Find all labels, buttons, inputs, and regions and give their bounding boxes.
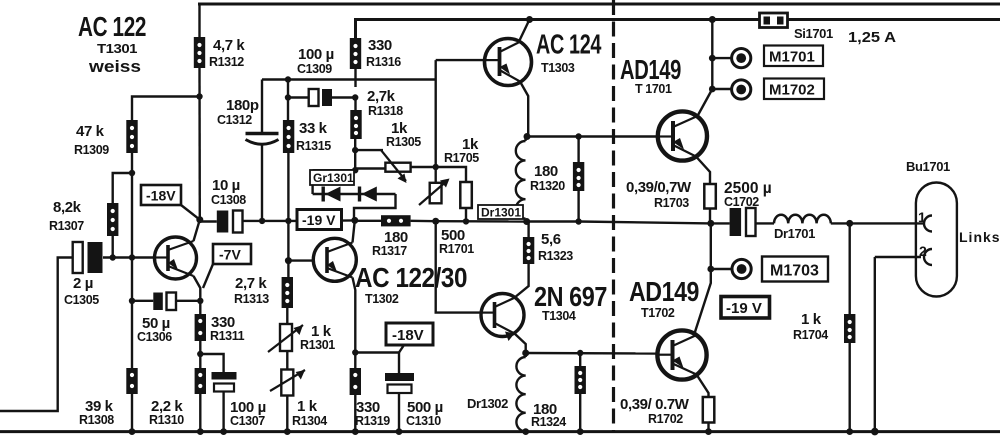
wire R1323 to T1304 collector	[514, 264, 529, 298]
svg-text:33 k: 33 k	[299, 120, 328, 137]
wire M1703 column	[710, 223, 712, 269]
transistor T1303	[485, 39, 532, 86]
svg-text:-18V: -18V	[392, 327, 424, 344]
svg-text:R1304: R1304	[292, 414, 327, 428]
svg-text:-7V: -7V	[219, 247, 241, 263]
node M1702 junction	[709, 86, 716, 93]
svg-text:C1305: C1305	[64, 293, 99, 307]
wire R1702 to ground	[707, 423, 709, 432]
node Dr1301 bottom junction	[523, 218, 530, 225]
svg-text:R1315: R1315	[296, 139, 331, 153]
svg-text:R1310: R1310	[149, 413, 184, 427]
inductor Dr1301	[516, 137, 526, 222]
resistor R1315	[283, 120, 294, 153]
wire second rail left part	[356, 20, 760, 39]
svg-text:AD149: AD149	[620, 54, 681, 85]
svg-text:M1703: M1703	[770, 263, 819, 280]
wire R1318 bottom segment	[354, 139, 356, 170]
diode D1 of Gr1301	[323, 187, 340, 202]
node emitter-C1306 junction	[197, 298, 203, 304]
resistor R1311	[195, 314, 206, 341]
node T1302 collector	[351, 217, 358, 224]
node R1311-C1307 junction	[197, 351, 203, 357]
wire x288 node down to base T1302	[287, 221, 289, 261]
wire diode left riser	[311, 170, 313, 194]
label box Dr1301	[478, 205, 523, 220]
svg-text:R1305: R1305	[386, 135, 421, 149]
wire T1301 collector to node	[194, 220, 200, 241]
svg-text:R1309: R1309	[74, 143, 109, 157]
node ground dots left	[129, 428, 136, 435]
node x288 top junction	[285, 76, 291, 82]
node speaker line junction	[846, 220, 853, 227]
wire feedback line y79.5	[262, 78, 436, 80]
wire diode row	[313, 193, 396, 195]
wire emitter line to T1702 base	[526, 352, 658, 355]
inductor Dr1302	[516, 353, 525, 432]
node R1307-base junction	[110, 254, 116, 260]
svg-text:1 k: 1 k	[297, 398, 318, 415]
wire R1310 to ground	[199, 394, 201, 432]
measuring point M1703	[732, 259, 751, 278]
svg-text:R1703: R1703	[654, 196, 689, 210]
wire base corner to T1303	[436, 59, 485, 61]
node ground dots mid	[352, 428, 359, 435]
svg-text:Dr1302: Dr1302	[467, 396, 508, 411]
node supply fuse junction	[709, 16, 716, 23]
wire M1701 stub	[712, 57, 731, 59]
wire y95 branch to R1309	[132, 97, 200, 121]
node ground dots Dr1302 R1324	[522, 428, 529, 435]
svg-text:47 k: 47 k	[76, 123, 105, 140]
capacitor C1306	[153, 293, 176, 311]
wire R1301 to R1304	[286, 351, 288, 370]
wire second rail right part after fuse	[787, 18, 1000, 21]
label box M1701	[764, 46, 823, 67]
svg-text:180p: 180p	[226, 97, 259, 114]
node supply R1312 junction	[196, 93, 202, 99]
svg-text:Links: Links	[959, 229, 1000, 245]
wire node to C1702	[711, 222, 730, 224]
wire top supply rail	[198, 3, 1000, 6]
wire R1323 top stub	[527, 222, 529, 238]
transistor T1302	[313, 238, 356, 281]
wire R1316 to C1309 node	[354, 69, 356, 87]
wire C1307 branch	[200, 354, 223, 372]
potentiometer R1305	[381, 150, 411, 183]
svg-text:2,7k: 2,7k	[367, 88, 396, 105]
svg-text:180: 180	[534, 163, 558, 180]
svg-text:-18V: -18V	[146, 188, 176, 204]
svg-text:0,39/0,7W: 0,39/0,7W	[626, 179, 692, 196]
wire -19V box to T1302 collector node	[342, 219, 355, 222]
wire C1312 column	[261, 80, 263, 133]
svg-text:2 µ: 2 µ	[73, 275, 93, 292]
wire R1319 to ground	[354, 395, 356, 432]
svg-text:R1317: R1317	[372, 244, 407, 258]
node C1306 left junction	[129, 298, 135, 304]
wire T1701 collector up to M junction	[698, 89, 713, 116]
wire T1303 base column	[435, 60, 437, 183]
wire C1306 branch	[132, 300, 153, 302]
svg-text:2: 2	[919, 243, 927, 259]
svg-text:T1301: T1301	[97, 42, 138, 56]
wire R1704 to ground	[849, 343, 851, 432]
wire pin2 column down	[874, 257, 876, 432]
svg-text:Dr1701: Dr1701	[774, 226, 815, 241]
wire Bu1701 pin2 line	[875, 256, 921, 258]
svg-text:AD149: AD149	[629, 276, 699, 307]
svg-text:Dr1301: Dr1301	[481, 206, 521, 220]
resistor R1307	[107, 203, 118, 236]
svg-text:AC 122: AC 122	[78, 11, 146, 42]
wire C1309 node to R1318	[354, 98, 356, 111]
node diode top junction	[352, 167, 358, 173]
resistor R1324	[575, 366, 586, 394]
wire base line x132 down	[131, 173, 133, 368]
label box -19V first	[297, 210, 342, 230]
wire C1310 branch	[355, 353, 399, 374]
wire R1324 stubs	[579, 353, 581, 366]
wire R1312 column	[198, 4, 200, 37]
potentiometer R1301	[268, 324, 303, 352]
wire T1302 collector	[353, 220, 355, 242]
resistor R1310	[195, 368, 206, 394]
node emitter junction	[522, 350, 529, 357]
wire T1702 emitter	[697, 375, 709, 398]
node ground dot pin2	[871, 428, 879, 436]
svg-text:C1702: C1702	[724, 195, 759, 209]
node M1703 junction	[707, 266, 714, 273]
wire C1309 left stub	[288, 96, 309, 98]
resistor R1308	[126, 368, 137, 394]
wire R1704 column	[849, 223, 851, 314]
svg-text:R1323: R1323	[538, 249, 573, 263]
wire R1320 bottom stub	[577, 191, 579, 222]
node C1309 right junction	[352, 94, 358, 100]
svg-text:M1702: M1702	[769, 82, 815, 99]
wire C1308 left	[200, 220, 217, 222]
wire M1703 stub	[711, 268, 732, 270]
resistor R1320	[573, 162, 584, 191]
wire Dr1701 to Bu1701 pin1	[831, 222, 924, 224]
wire x288 down to C1309	[287, 80, 289, 121]
wire R1315 bottom to node	[287, 153, 289, 221]
wire node to R1305 left end	[355, 167, 385, 169]
svg-text:AC 124: AC 124	[536, 29, 602, 60]
potentiometer R1304	[270, 370, 305, 396]
wire R1311 to R1310	[199, 341, 201, 368]
wire C1305 to base of T1301	[103, 256, 155, 258]
svg-text:R1318: R1318	[368, 104, 403, 118]
svg-text:M1701: M1701	[769, 49, 815, 66]
svg-text:Bu1701: Bu1701	[906, 159, 950, 174]
svg-text:AC 122/30: AC 122/30	[355, 262, 467, 293]
wire R1701 node down to T1304 base	[436, 221, 482, 312]
svg-text:1,25 A: 1,25 A	[848, 29, 896, 46]
svg-text:R1307: R1307	[49, 219, 84, 233]
potentiometer R1701	[419, 179, 450, 206]
wire R1320 top stub	[577, 137, 579, 163]
wire T1702 collector column	[694, 269, 711, 335]
wire base node down to R1313	[287, 261, 289, 277]
svg-text:Si1701: Si1701	[794, 26, 833, 41]
node R1315 column junction	[285, 218, 291, 224]
resistor R1319	[350, 368, 361, 395]
svg-text:R1316: R1316	[366, 55, 401, 69]
svg-text:1: 1	[918, 209, 926, 225]
resistor R1313	[282, 277, 293, 308]
svg-text:T1304: T1304	[542, 309, 576, 323]
svg-text:C1308: C1308	[211, 193, 246, 207]
connector Bu1701	[916, 183, 957, 297]
boundary dashed line	[612, 0, 615, 431]
wire diode right riser	[354, 194, 396, 220]
svg-text:T 1701: T 1701	[635, 82, 672, 96]
svg-text:-19 V: -19 V	[302, 212, 336, 228]
node R1324 top junction	[577, 350, 583, 356]
node ground dot x287	[284, 428, 291, 435]
node emitter C1310 junction	[352, 349, 358, 355]
wire T1304 emitter down	[515, 334, 526, 354]
svg-text:R1320: R1320	[530, 179, 565, 193]
label box -19V second	[721, 297, 770, 319]
svg-text:8,2k: 8,2k	[53, 199, 82, 216]
label box -7V	[203, 244, 251, 288]
svg-text:Gr1301: Gr1301	[313, 171, 354, 185]
node emitter Dr1301 junction	[524, 133, 531, 140]
node T1301 collector junction	[196, 216, 203, 223]
capacitor C1308	[217, 211, 243, 233]
resistor R1702	[703, 397, 715, 423]
svg-text:R1319: R1319	[355, 414, 390, 428]
capacitor C1309	[309, 89, 332, 106]
diode D2 of Gr1301	[360, 187, 377, 202]
wire R1307 bottom to base line	[111, 236, 113, 258]
node base-divider junction	[129, 254, 135, 260]
svg-text:R1701: R1701	[439, 242, 474, 256]
capacitor C1305	[73, 242, 103, 273]
node R1305 junction	[433, 164, 439, 170]
transistor T1304	[481, 294, 524, 342]
wire R1308 to ground	[131, 394, 133, 432]
wire T1302 emitter down	[353, 278, 356, 369]
resistor R1309	[126, 120, 137, 153]
wire bias line to Dr1301	[436, 220, 527, 223]
wire T1301 emitter down	[194, 276, 201, 314]
wire C1702 to Dr1701	[756, 222, 775, 224]
svg-text:R1313: R1313	[234, 292, 269, 306]
capacitor C1702	[730, 208, 756, 236]
diode group Gr1301 loop top wire	[313, 169, 355, 171]
svg-text:-19 V: -19 V	[726, 300, 762, 317]
wire input from left edge	[0, 258, 73, 412]
svg-text:R1311: R1311	[210, 329, 245, 343]
resistor R1703	[704, 184, 716, 209]
svg-text:T1702: T1702	[641, 306, 675, 320]
wire collector node to R1317	[355, 220, 381, 222]
label box -18V second	[386, 323, 433, 353]
node T1302 base junction	[285, 257, 292, 264]
wire Dr1301 bottom to R1320 bottom	[527, 220, 579, 222]
wire R1703 bottom	[709, 209, 711, 224]
svg-text:10 µ: 10 µ	[212, 177, 240, 194]
svg-text:1 k: 1 k	[801, 311, 822, 328]
node C1312 bottom junction	[259, 218, 265, 224]
svg-text:T1303: T1303	[541, 61, 575, 75]
wire junction to R1307	[113, 173, 132, 203]
wire R1309 bottom to junction	[131, 153, 133, 173]
resistor R1705	[460, 182, 472, 208]
label box M1703	[762, 257, 828, 282]
svg-text:0,39/ 0.7W: 0,39/ 0.7W	[620, 396, 690, 413]
svg-text:2,7 k: 2,7 k	[235, 275, 267, 292]
wire R1312 to collector node	[198, 68, 201, 220]
node M1701 junction	[709, 55, 716, 62]
label box Gr1301	[310, 170, 354, 185]
svg-text:5,6: 5,6	[541, 231, 561, 248]
node R1318 bottom junction	[352, 147, 358, 153]
resistor R1323	[523, 237, 534, 264]
svg-text:R1324: R1324	[531, 415, 566, 429]
label box M1702	[764, 79, 824, 100]
capacitor C1307	[212, 372, 237, 392]
wire base to T1302	[288, 259, 313, 261]
resistor R1318	[350, 110, 361, 139]
measuring point M1702	[732, 80, 751, 99]
wire R1304 to ground	[286, 396, 288, 432]
capacitor C1310	[385, 373, 414, 393]
svg-text:C1306: C1306	[137, 330, 172, 344]
wire supply column x712	[711, 20, 713, 90]
node ground dot R1704	[846, 428, 853, 435]
wire output bias line right section	[579, 222, 711, 224]
svg-text:T1302: T1302	[365, 292, 399, 306]
svg-text:R1705: R1705	[444, 151, 479, 165]
wire T1303 emitter down	[520, 82, 528, 137]
wire C1309 right stub	[332, 96, 355, 98]
wire base line to T1701	[527, 135, 658, 137]
potentiometer R1305 wiper wire	[355, 149, 383, 151]
svg-text:2N 697: 2N 697	[534, 281, 607, 312]
svg-text:C1310: C1310	[406, 414, 441, 428]
wire R1705 bottom	[465, 208, 467, 221]
svg-text:R1301: R1301	[300, 338, 335, 352]
wire T1303 collector to rail	[519, 20, 530, 43]
measuring point M1701	[732, 49, 751, 68]
wire R1313 to R1301	[286, 308, 288, 324]
svg-text:4,7 k: 4,7 k	[213, 37, 245, 54]
resistor R1704	[844, 314, 855, 343]
wire R1705 top branch	[436, 167, 466, 182]
node collector rail junction	[526, 16, 533, 23]
resistor R1312	[194, 37, 205, 68]
wire R1305 right to node	[411, 166, 436, 168]
wire R1701 bottom node	[432, 218, 439, 225]
node R1705 bottom	[463, 218, 469, 224]
svg-text:100 µ: 100 µ	[298, 46, 334, 63]
svg-text:C1307: C1307	[230, 414, 265, 428]
capacitor C1312	[246, 134, 279, 145]
resistor R1316	[350, 38, 361, 69]
svg-text:R1308: R1308	[79, 413, 114, 427]
wire C1308 right to -19V node	[243, 220, 298, 222]
wire T1701 emitter	[696, 157, 710, 185]
transistor T1301	[155, 237, 197, 279]
wire R1317 to R1701 node	[411, 220, 436, 223]
fuse Si1701	[760, 13, 788, 28]
svg-text:R1704: R1704	[793, 328, 828, 342]
node ground dot R1702	[705, 428, 712, 435]
node R1320 bottom junction	[575, 218, 581, 224]
resistor R1317	[381, 215, 411, 226]
wire bottom ground rail	[0, 430, 1000, 433]
svg-text:R1702: R1702	[648, 412, 683, 426]
svg-text:C1312: C1312	[217, 113, 252, 127]
svg-text:330: 330	[368, 37, 392, 54]
wire M1702 stub	[712, 88, 731, 90]
node output junction	[707, 220, 714, 227]
svg-text:weiss: weiss	[88, 57, 141, 76]
node R1309 divider junction	[129, 170, 135, 176]
svg-text:C1309: C1309	[297, 62, 332, 76]
node R1320 top junction	[575, 133, 581, 139]
inductor Dr1701	[774, 215, 831, 224]
svg-text:R1312: R1312	[209, 55, 244, 69]
node C1309 left junction	[285, 94, 291, 100]
transistor T1702	[657, 330, 706, 379]
transistor T1701	[658, 111, 707, 160]
label box -18V first	[141, 185, 200, 220]
